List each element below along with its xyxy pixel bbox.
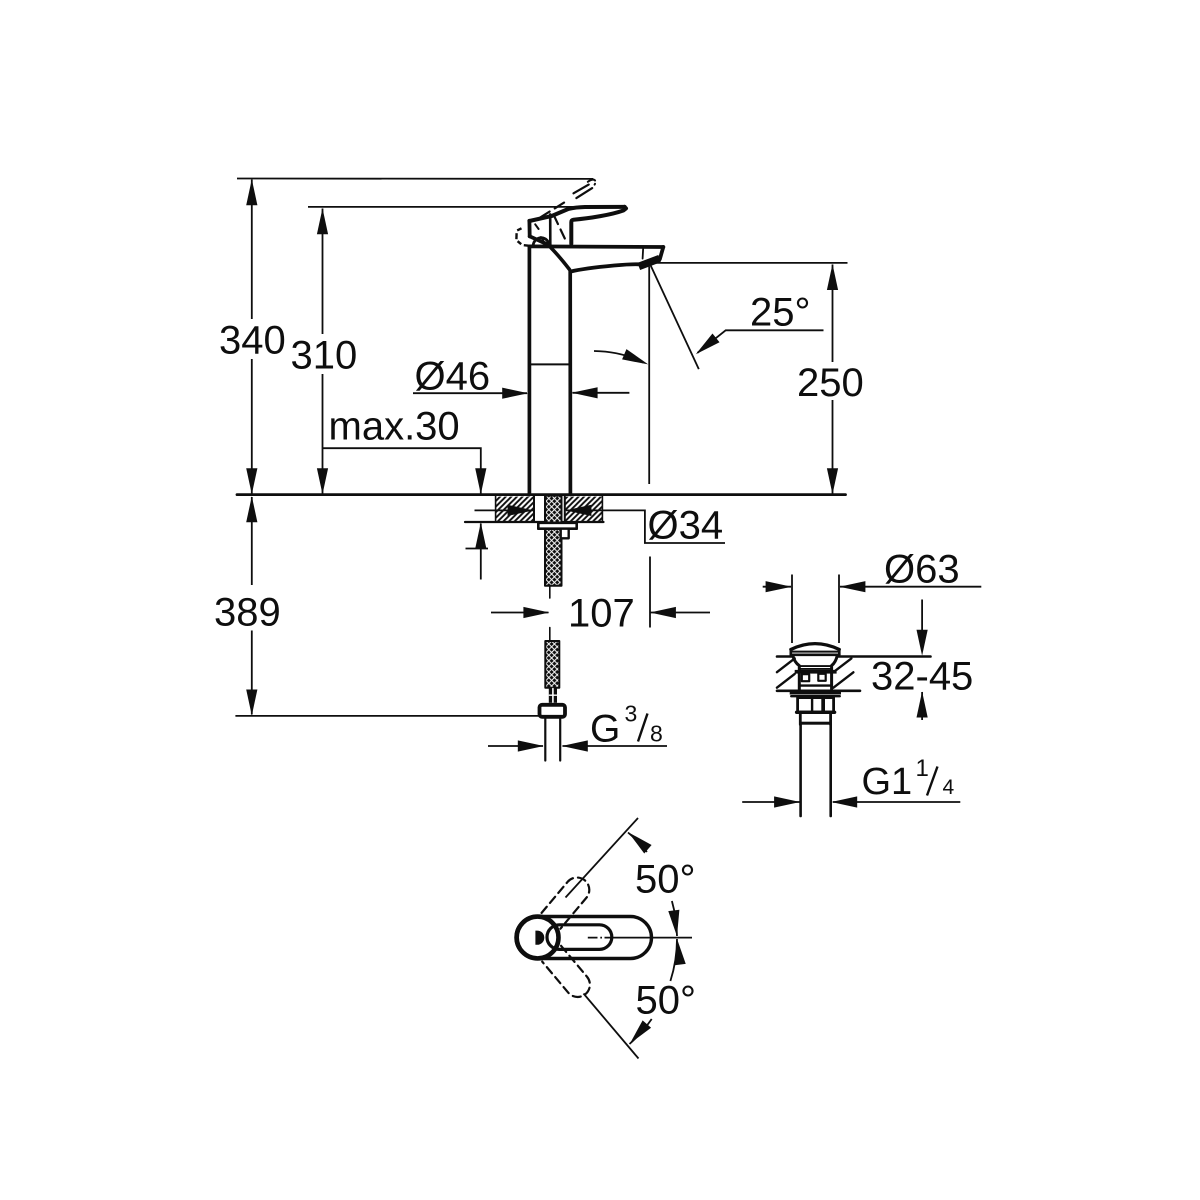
svg-text:25°: 25° xyxy=(750,291,811,335)
valve neck rings xyxy=(799,666,831,669)
arrow 250 top xyxy=(827,264,838,290)
svg-text:8: 8 xyxy=(650,721,663,747)
deck hole left edge xyxy=(533,496,535,522)
deck baseline xyxy=(237,493,846,496)
dashed ghost lever upper xyxy=(542,872,595,928)
arrow max30 bottom xyxy=(475,468,486,494)
svg-text:G: G xyxy=(590,708,620,751)
dimension 107 right line xyxy=(651,612,711,614)
arrow 340 bottom xyxy=(246,468,257,494)
hose mid collar xyxy=(549,688,557,703)
swivel centerline xyxy=(588,937,692,939)
svg-text:max.30: max.30 xyxy=(329,405,460,449)
swivel curved arrow xyxy=(594,351,643,363)
drain cap dome xyxy=(791,644,840,650)
dimension line 250 xyxy=(832,265,834,494)
coupling band xyxy=(800,722,831,725)
spout underside xyxy=(570,264,638,271)
valve slot window left xyxy=(802,674,809,681)
arrow 32-45 top xyxy=(917,630,928,656)
svg-text:340: 340 xyxy=(219,319,286,363)
G3/8 tube left edge xyxy=(544,717,546,761)
arrow 50 lower ray xyxy=(626,1020,652,1047)
mounting washer under deck xyxy=(538,523,576,529)
arrow 310 bottom xyxy=(317,468,328,494)
arrow dia34 left xyxy=(508,505,534,516)
arrow 340 top xyxy=(246,179,257,205)
svg-text:107: 107 xyxy=(568,592,635,636)
dia34 right arrow line and label bracket xyxy=(566,510,725,543)
spout tip face xyxy=(660,247,664,259)
dia63 extension right xyxy=(838,575,840,644)
faucet column left edge xyxy=(528,246,532,494)
G3/8 right arrow line xyxy=(563,745,668,747)
body shoulder fillet xyxy=(551,248,570,270)
dia46 right arrow line xyxy=(573,392,630,394)
svg-text:50°: 50° xyxy=(635,858,696,902)
inner lever outline xyxy=(547,925,612,950)
dia46 left arrow line xyxy=(413,392,527,394)
column joint line xyxy=(529,363,570,365)
under-deck tick xyxy=(466,548,489,550)
dashed cap small marks xyxy=(535,224,538,229)
knob circle xyxy=(517,917,559,959)
basin hatch right xyxy=(833,658,853,687)
G3/8 left arrow line xyxy=(488,745,543,747)
arrow 107 right xyxy=(650,607,676,618)
basin top line xyxy=(777,655,931,658)
lower 50deg ray xyxy=(584,994,639,1059)
dashed raised lever tip lines xyxy=(574,185,589,194)
25 degree spray line xyxy=(651,266,699,369)
upper 50deg arc xyxy=(628,833,677,937)
dashed raised cap right edge xyxy=(554,215,568,244)
dimension line 389 xyxy=(251,497,253,715)
handle cap bottom edge xyxy=(530,236,550,245)
25 degree leader xyxy=(698,330,824,353)
arrow 50 center up xyxy=(671,938,685,965)
handle outline stadium xyxy=(516,917,652,959)
svg-text:50°: 50° xyxy=(636,979,697,1023)
arrow 25deg leader xyxy=(692,333,719,358)
castellated nut outline xyxy=(798,698,834,712)
arrow swivel xyxy=(622,349,650,369)
G1 1/4 arrow lines xyxy=(742,801,960,803)
deck right end edge xyxy=(601,496,603,521)
arrow 107 left xyxy=(523,607,549,618)
basin hatch left xyxy=(777,658,795,687)
arrow dia46 right xyxy=(572,387,598,398)
valve body band line xyxy=(800,684,831,686)
dashed ghost lever lower xyxy=(542,946,595,1002)
faucet column right edge xyxy=(568,271,572,495)
dashed raised cap outline xyxy=(516,228,528,245)
valve neck right xyxy=(832,655,838,671)
valve slot window right xyxy=(818,674,825,681)
castellated nut posts xyxy=(811,698,813,712)
deck left end edge xyxy=(495,496,497,521)
label G3/8 xyxy=(590,701,663,751)
dashed raised tip arc xyxy=(588,180,596,185)
aerator separation line xyxy=(642,247,645,258)
basin bottom line xyxy=(777,689,860,692)
arrow 50 upper ray xyxy=(625,828,652,854)
dimension line 340 xyxy=(251,180,253,494)
arrow 32-45 bottom xyxy=(917,692,928,718)
valve body left edge xyxy=(798,674,801,691)
under-deck thickness arrow xyxy=(480,524,482,580)
backnut flange lower line xyxy=(791,695,840,697)
svg-text:310: 310 xyxy=(291,334,358,378)
handle cap interior line xyxy=(549,214,552,245)
handle cap left edge xyxy=(528,221,532,237)
arrow under-deck up xyxy=(475,523,486,549)
drain dimensions xyxy=(742,575,981,803)
cartridge dome xyxy=(533,238,549,246)
svg-text:G1: G1 xyxy=(862,761,913,803)
valve seal ring xyxy=(795,670,837,674)
threaded shank through deck xyxy=(545,496,562,586)
tailpipe left edge xyxy=(799,725,802,816)
svg-text:1: 1 xyxy=(916,755,929,782)
backnut flange xyxy=(790,691,841,695)
coupling left xyxy=(799,713,802,725)
svg-text:Ø63: Ø63 xyxy=(884,548,960,592)
lower 50deg arc xyxy=(630,939,678,1044)
knob slot blob xyxy=(535,931,544,945)
arrow dia63 right xyxy=(839,581,865,592)
hose centerline lower dash xyxy=(549,628,551,642)
arrow 50 center down xyxy=(668,910,682,937)
aerator slab xyxy=(639,259,660,267)
arrow G114 right xyxy=(831,796,857,807)
arrow 389 top xyxy=(246,496,257,522)
body top line xyxy=(529,244,663,248)
drain cap inner line xyxy=(792,651,838,653)
arrow G38 right xyxy=(562,740,588,751)
arrow 250 bottom xyxy=(827,468,838,494)
deck bottom line xyxy=(465,521,604,523)
G3/8 tube right edge xyxy=(559,717,561,761)
extension line 340 xyxy=(237,178,593,180)
hose centerline upper dash xyxy=(549,587,551,599)
castellated nut bottom bold xyxy=(797,711,835,714)
drain cap right side xyxy=(838,649,841,654)
deck slab left hatch xyxy=(496,497,534,522)
arrow 310 top xyxy=(317,208,328,234)
dia63 arrow lines xyxy=(763,586,982,588)
arrow dia34 right xyxy=(565,505,591,516)
arrow G38 left xyxy=(518,740,544,751)
drain cap base line xyxy=(791,653,840,656)
deck hole right edge xyxy=(564,496,566,522)
arrow dia46 left xyxy=(502,388,528,399)
extension line 310 xyxy=(308,206,604,208)
tailpipe right edge xyxy=(829,725,832,816)
lower hose threaded segment xyxy=(545,641,559,688)
extension line 389 bottom xyxy=(235,715,539,717)
svg-text:3: 3 xyxy=(625,701,638,727)
max.30 leader line xyxy=(323,448,481,493)
arrow 389 bottom xyxy=(246,690,257,716)
dimension line 310 xyxy=(322,209,324,494)
valve body right edge xyxy=(830,674,833,691)
svg-text:Ø46: Ø46 xyxy=(415,355,491,399)
upper 50deg ray xyxy=(566,818,639,898)
washer lug xyxy=(561,529,569,539)
G3/8 nut xyxy=(540,705,566,717)
32-45 lower dimension line xyxy=(921,692,923,720)
lever tip and underside xyxy=(571,207,626,244)
dashed raised lever top edge xyxy=(540,201,566,217)
deck slab right hatch xyxy=(565,497,603,522)
drain cap left side xyxy=(789,649,792,654)
32-45 upper dimension line xyxy=(921,600,923,632)
svg-text:Ø34: Ø34 xyxy=(648,504,724,548)
coupling right xyxy=(829,713,832,725)
dimension 107 left line xyxy=(491,612,549,614)
svg-text:32-45: 32-45 xyxy=(871,655,973,699)
arrow dia63 left xyxy=(766,581,792,592)
svg-text:389: 389 xyxy=(214,591,281,635)
label G1 1/4 xyxy=(862,755,955,803)
dia34 left arrow line xyxy=(475,509,534,511)
spout vertical reference line xyxy=(648,267,651,628)
svg-text:250: 250 xyxy=(797,361,864,405)
extension line 250 top xyxy=(653,262,848,264)
dia63 extension left xyxy=(791,575,793,644)
valve neck left xyxy=(793,655,800,671)
lever top edge xyxy=(529,207,624,221)
arrow G114 left xyxy=(774,796,800,807)
svg-text:4: 4 xyxy=(943,776,955,799)
